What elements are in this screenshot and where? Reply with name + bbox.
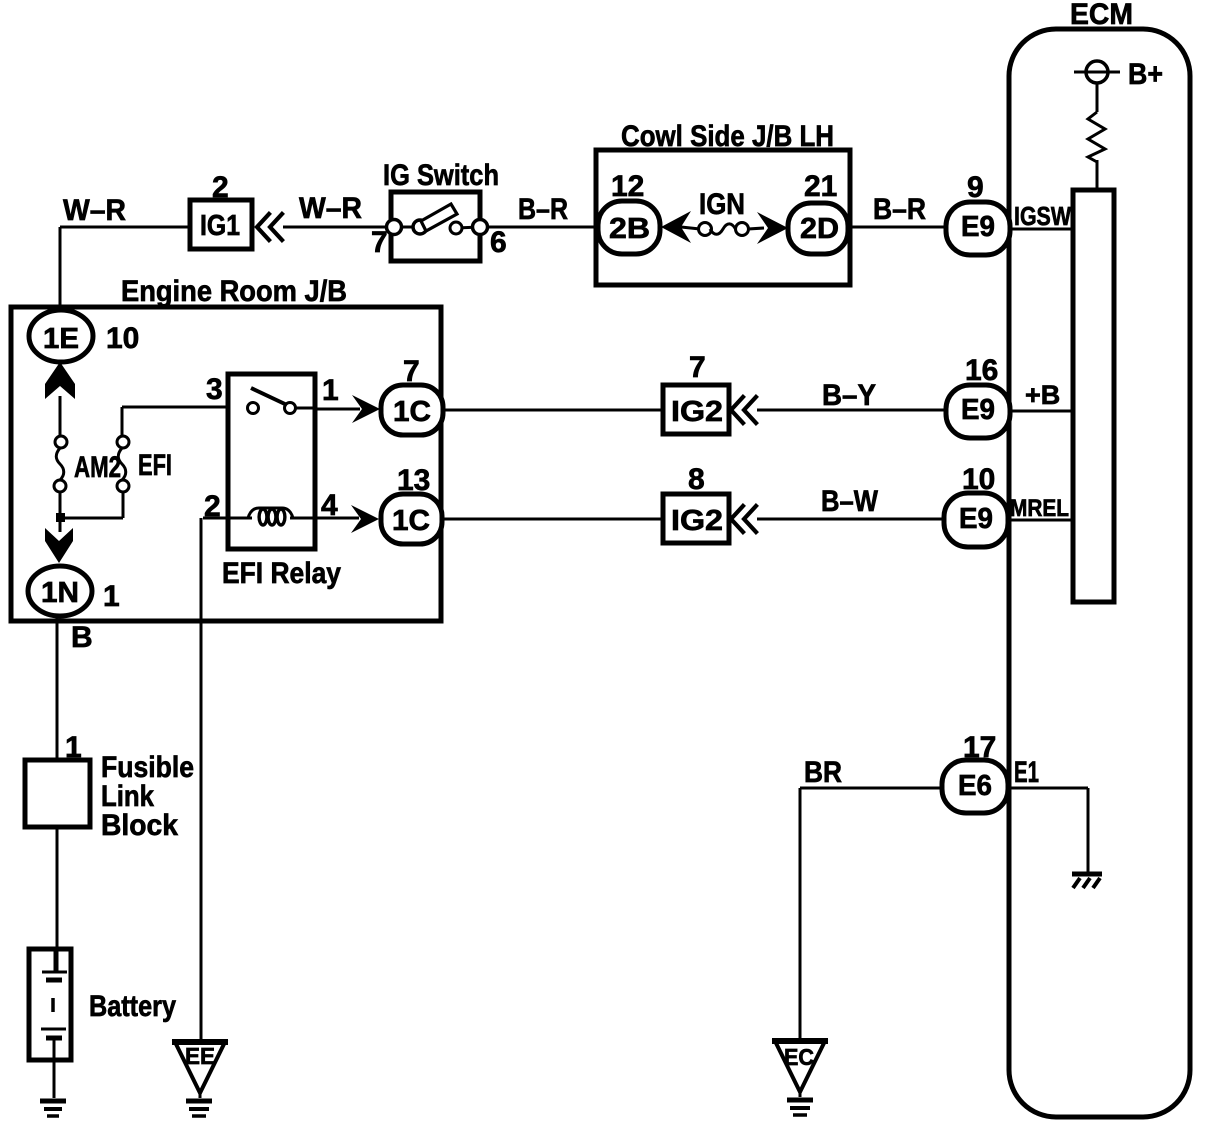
svg-text:21: 21 xyxy=(804,170,837,203)
svg-text:13: 13 xyxy=(397,464,430,497)
svg-text:IGN: IGN xyxy=(699,188,745,221)
svg-text:16: 16 xyxy=(965,354,998,387)
svg-text:Battery: Battery xyxy=(89,990,176,1023)
svg-text:1C: 1C xyxy=(393,396,431,428)
svg-text:2B: 2B xyxy=(609,213,650,245)
svg-text:AM2: AM2 xyxy=(74,451,121,484)
svg-text:EFI: EFI xyxy=(138,449,172,482)
svg-text:1C: 1C xyxy=(392,505,430,537)
svg-text:1: 1 xyxy=(103,580,120,613)
svg-text:1: 1 xyxy=(322,374,339,407)
svg-text:E1: E1 xyxy=(1014,756,1039,789)
svg-text:IG2: IG2 xyxy=(671,396,723,428)
svg-text:IG1: IG1 xyxy=(200,210,240,242)
svg-text:6: 6 xyxy=(490,226,507,259)
svg-text:10: 10 xyxy=(106,322,139,355)
svg-text:E9: E9 xyxy=(961,394,995,426)
svg-text:ECM: ECM xyxy=(1070,0,1133,31)
svg-text:7: 7 xyxy=(403,355,420,388)
svg-text:EE: EE xyxy=(185,1043,215,1069)
svg-text:8: 8 xyxy=(688,463,705,496)
svg-text:B–Y: B–Y xyxy=(822,379,876,412)
svg-text:12: 12 xyxy=(611,170,644,203)
svg-text:B–R: B–R xyxy=(873,193,926,226)
svg-text:B+: B+ xyxy=(1128,58,1163,91)
svg-text:+B: +B xyxy=(1025,380,1060,410)
svg-text:W–R: W–R xyxy=(63,194,126,227)
svg-text:2D: 2D xyxy=(800,213,839,245)
svg-text:1E: 1E xyxy=(43,323,79,355)
svg-text:IGSW: IGSW xyxy=(1014,201,1071,231)
svg-text:BR: BR xyxy=(804,756,842,789)
svg-text:B: B xyxy=(71,621,93,654)
svg-text:7: 7 xyxy=(689,351,706,384)
svg-text:7: 7 xyxy=(371,226,388,259)
svg-text:Block: Block xyxy=(101,809,178,842)
svg-text:9: 9 xyxy=(967,171,984,204)
svg-text:EC: EC xyxy=(784,1044,814,1070)
svg-text:3: 3 xyxy=(206,373,223,406)
svg-text:2: 2 xyxy=(212,171,229,204)
svg-text:MREL: MREL xyxy=(1010,495,1069,522)
svg-text:1N: 1N xyxy=(41,577,79,609)
svg-text:Engine Room J/B: Engine Room J/B xyxy=(121,275,347,308)
svg-text:IG2: IG2 xyxy=(671,505,723,537)
svg-text:B–R: B–R xyxy=(518,193,568,226)
svg-text:W–R: W–R xyxy=(299,192,362,225)
svg-text:EFI Relay: EFI Relay xyxy=(222,557,341,590)
svg-text:B–W: B–W xyxy=(821,485,879,518)
svg-text:E9: E9 xyxy=(959,503,993,535)
svg-text:IG Switch: IG Switch xyxy=(383,159,499,192)
svg-text:E6: E6 xyxy=(958,770,992,802)
svg-text:E9: E9 xyxy=(961,211,995,243)
